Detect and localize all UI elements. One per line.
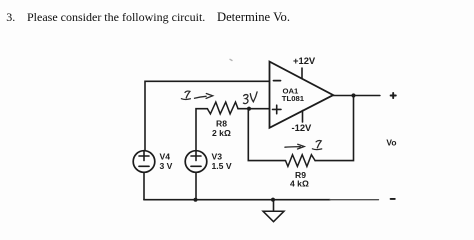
+12V supply pin bbox=[301, 68, 303, 79]
output minus terminal bbox=[391, 198, 395, 200]
node 3V junction bbox=[247, 107, 251, 111]
-12V supply pin bbox=[302, 111, 304, 123]
wire top (inverting input to left branch) bbox=[145, 81, 270, 150]
wire feedback right vertical bbox=[315, 96, 353, 161]
wire output bbox=[333, 95, 380, 97]
node ground junction bbox=[271, 198, 275, 202]
stray pencil mark bbox=[230, 59, 232, 60]
wire V3 bottom bbox=[195, 172, 197, 199]
svg-text:4 kΩ: 4 kΩ bbox=[290, 179, 309, 189]
wire bottom rail faint right bbox=[330, 199, 379, 201]
svg-text:Please consider the following: Please consider the following circuit. bbox=[27, 10, 205, 24]
svg-text:3.: 3. bbox=[6, 10, 15, 24]
ground bbox=[263, 200, 284, 222]
op-amp plus input mark bbox=[273, 105, 282, 114]
wire V3 to R8 bbox=[196, 109, 207, 151]
svg-text:+12V: +12V bbox=[293, 55, 316, 66]
svg-text:-12V: -12V bbox=[292, 122, 313, 133]
wire R8 to noninverting input bbox=[238, 108, 270, 110]
node output junction bbox=[351, 93, 355, 97]
svg-text:1.5 V: 1.5 V bbox=[212, 161, 232, 171]
svg-text:2 kΩ: 2 kΩ bbox=[212, 128, 231, 138]
svg-text:V4: V4 bbox=[160, 152, 171, 162]
source V4 bbox=[133, 151, 155, 173]
svg-text:Determine Vo.: Determine Vo. bbox=[217, 10, 290, 24]
handwritten 3V node voltage bbox=[243, 92, 257, 104]
svg-text:TL081: TL081 bbox=[282, 94, 305, 103]
handwritten current I with arrow above R9 bbox=[285, 141, 322, 150]
node V3 bottom bbox=[194, 198, 198, 202]
wire bottom rail bbox=[144, 199, 330, 201]
svg-text:V3: V3 bbox=[212, 152, 223, 162]
op-amp OA1 bbox=[270, 62, 334, 128]
resistor R9 bbox=[286, 155, 316, 167]
svg-text:3 V: 3 V bbox=[160, 161, 173, 171]
output plus terminal bbox=[391, 93, 396, 98]
svg-text:Vo: Vo bbox=[386, 138, 396, 148]
resistor R8 bbox=[207, 102, 238, 114]
wire V4 bottom bbox=[143, 172, 145, 199]
handwritten current I with arrow above R8 bbox=[181, 91, 212, 99]
wire feedback left vertical bbox=[248, 109, 285, 161]
op-amp minus input mark bbox=[274, 80, 281, 82]
source V3 bbox=[185, 151, 207, 173]
